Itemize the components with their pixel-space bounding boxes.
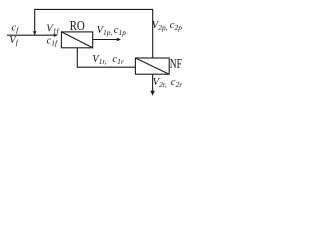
wire RO bottom to NF [77,48,135,67]
wire NF output down [152,74,154,91]
wire feedback loop [35,9,153,58]
diagonal RO [61,32,92,48]
wire RO output right [93,39,118,41]
svg-text:RO: RO [70,19,85,34]
diagonal NF [135,58,169,74]
wire input line c_f/V_f [7,34,54,36]
svg-text:NF: NF [170,57,182,72]
arrowhead NF output [150,91,155,96]
arrowhead RO output [117,38,121,41]
block NF [135,58,169,74]
arrowhead feedback junction [33,31,37,35]
arrowhead into RO [54,34,58,37]
block RO [61,32,92,48]
